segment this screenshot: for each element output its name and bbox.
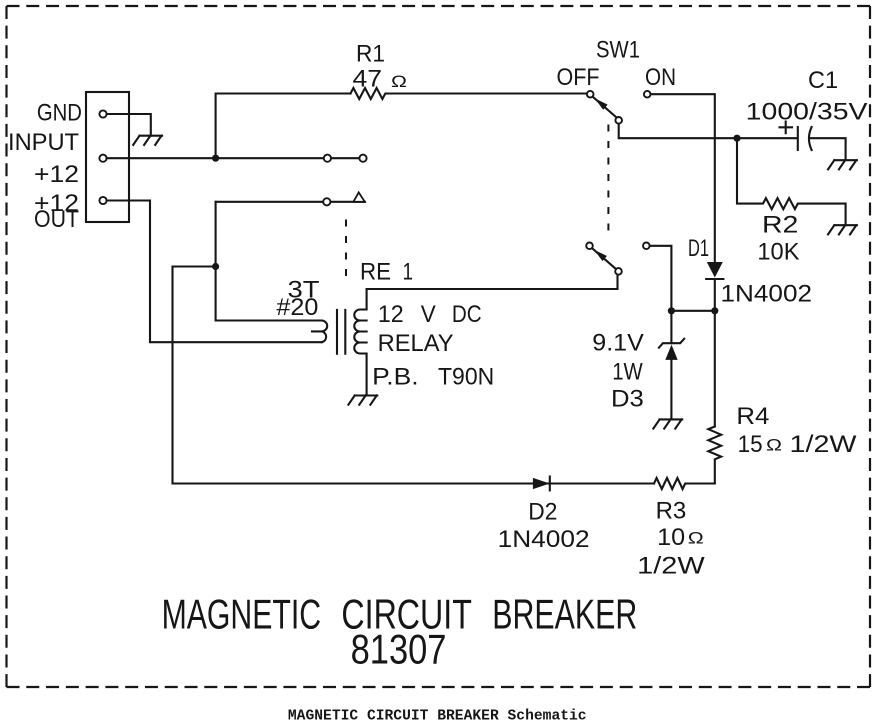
svg-text:1000/35V: 1000/35V [746, 98, 868, 125]
svg-text:1W: 1W [612, 359, 643, 386]
svg-text:T90N: T90N [438, 363, 494, 390]
svg-text:1/2W: 1/2W [790, 431, 857, 458]
svg-text:RELAY: RELAY [378, 330, 454, 357]
svg-text:10: 10 [657, 524, 685, 551]
svg-text:D1: D1 [688, 235, 709, 262]
svg-text:ON: ON [645, 64, 676, 91]
svg-text:12: 12 [378, 301, 404, 328]
svg-text:10K: 10K [757, 238, 799, 265]
svg-text:DC: DC [452, 301, 482, 328]
svg-text:C1: C1 [808, 67, 838, 94]
svg-text:R2: R2 [762, 211, 798, 238]
svg-text:1: 1 [403, 259, 414, 286]
svg-text:1N4002: 1N4002 [498, 526, 590, 553]
svg-text:R4: R4 [736, 403, 769, 430]
svg-text:SW1: SW1 [596, 37, 640, 64]
svg-text:#20: #20 [276, 294, 318, 321]
svg-text:Ω: Ω [688, 529, 704, 548]
svg-text:47: 47 [353, 66, 383, 93]
svg-text:BREAKER: BREAKER [492, 591, 637, 638]
svg-text:OFF: OFF [557, 64, 600, 91]
svg-text:1N4002: 1N4002 [721, 280, 813, 307]
svg-text:D3: D3 [611, 386, 644, 413]
svg-text:V: V [421, 301, 436, 328]
svg-text:MAGNETIC CIRCUIT BREAKER Schem: MAGNETIC CIRCUIT BREAKER Schematic [288, 709, 587, 725]
svg-text:9.1V: 9.1V [592, 329, 644, 356]
svg-text:Ω: Ω [391, 72, 407, 91]
svg-text:1/2W: 1/2W [637, 553, 705, 580]
svg-text:MAGNETIC: MAGNETIC [162, 591, 322, 638]
svg-text:P.B.: P.B. [372, 363, 419, 390]
svg-text:81307: 81307 [351, 626, 447, 673]
svg-text:15: 15 [738, 431, 763, 458]
svg-text:+12: +12 [34, 161, 79, 188]
svg-text:INPUT: INPUT [8, 129, 79, 156]
svg-text:GND: GND [37, 100, 82, 127]
svg-text:R1: R1 [356, 41, 385, 68]
svg-text:D2: D2 [528, 499, 557, 526]
svg-text:Ω: Ω [766, 436, 782, 455]
svg-text:R3: R3 [656, 498, 687, 525]
svg-text:RE: RE [360, 259, 391, 286]
svg-text:OUT: OUT [34, 206, 79, 233]
